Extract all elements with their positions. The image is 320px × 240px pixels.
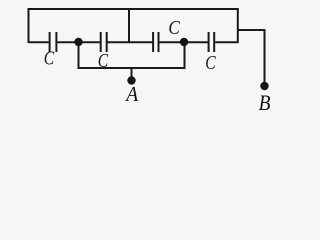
- svg-text:B: B: [259, 92, 271, 115]
- wire: outer top loop (left edge, top edge, right edge): [29, 9, 238, 43]
- wire: stub down to terminal A: [131, 68, 133, 79]
- terminal dot A: [127, 76, 135, 84]
- wire: bus segment C2 to C3: [108, 41, 153, 43]
- svg-text:C: C: [98, 49, 109, 71]
- svg-text:A: A: [124, 83, 138, 106]
- capacitor C2 plates: [101, 32, 107, 52]
- svg-text:C: C: [44, 47, 55, 69]
- wire: bottom U loop between the two bus nodes: [79, 42, 185, 68]
- wire: branch from right edge out to terminal B: [238, 30, 265, 84]
- wire: bus segment C4 to right edge: [215, 41, 238, 43]
- node junction dot on bus (right): [180, 38, 188, 46]
- background paper: [0, 0, 300, 124]
- wire: middle vertical from top edge to main bus: [128, 9, 130, 42]
- node junction dot on bus (left): [74, 38, 82, 46]
- terminal dot B: [260, 82, 268, 90]
- wire: bus segment C3 to C4 through node dot: [159, 41, 207, 43]
- capacitor C1 plates: [50, 32, 57, 52]
- capacitor C4 plates: [209, 32, 215, 52]
- svg-text:C: C: [205, 51, 216, 73]
- capacitor C3 plates: [153, 32, 158, 52]
- svg-text:C: C: [168, 17, 180, 40]
- wire: bus segment C1 to C2 through node dot: [57, 41, 100, 43]
- wire: main bus segment left of C1: [29, 41, 49, 43]
